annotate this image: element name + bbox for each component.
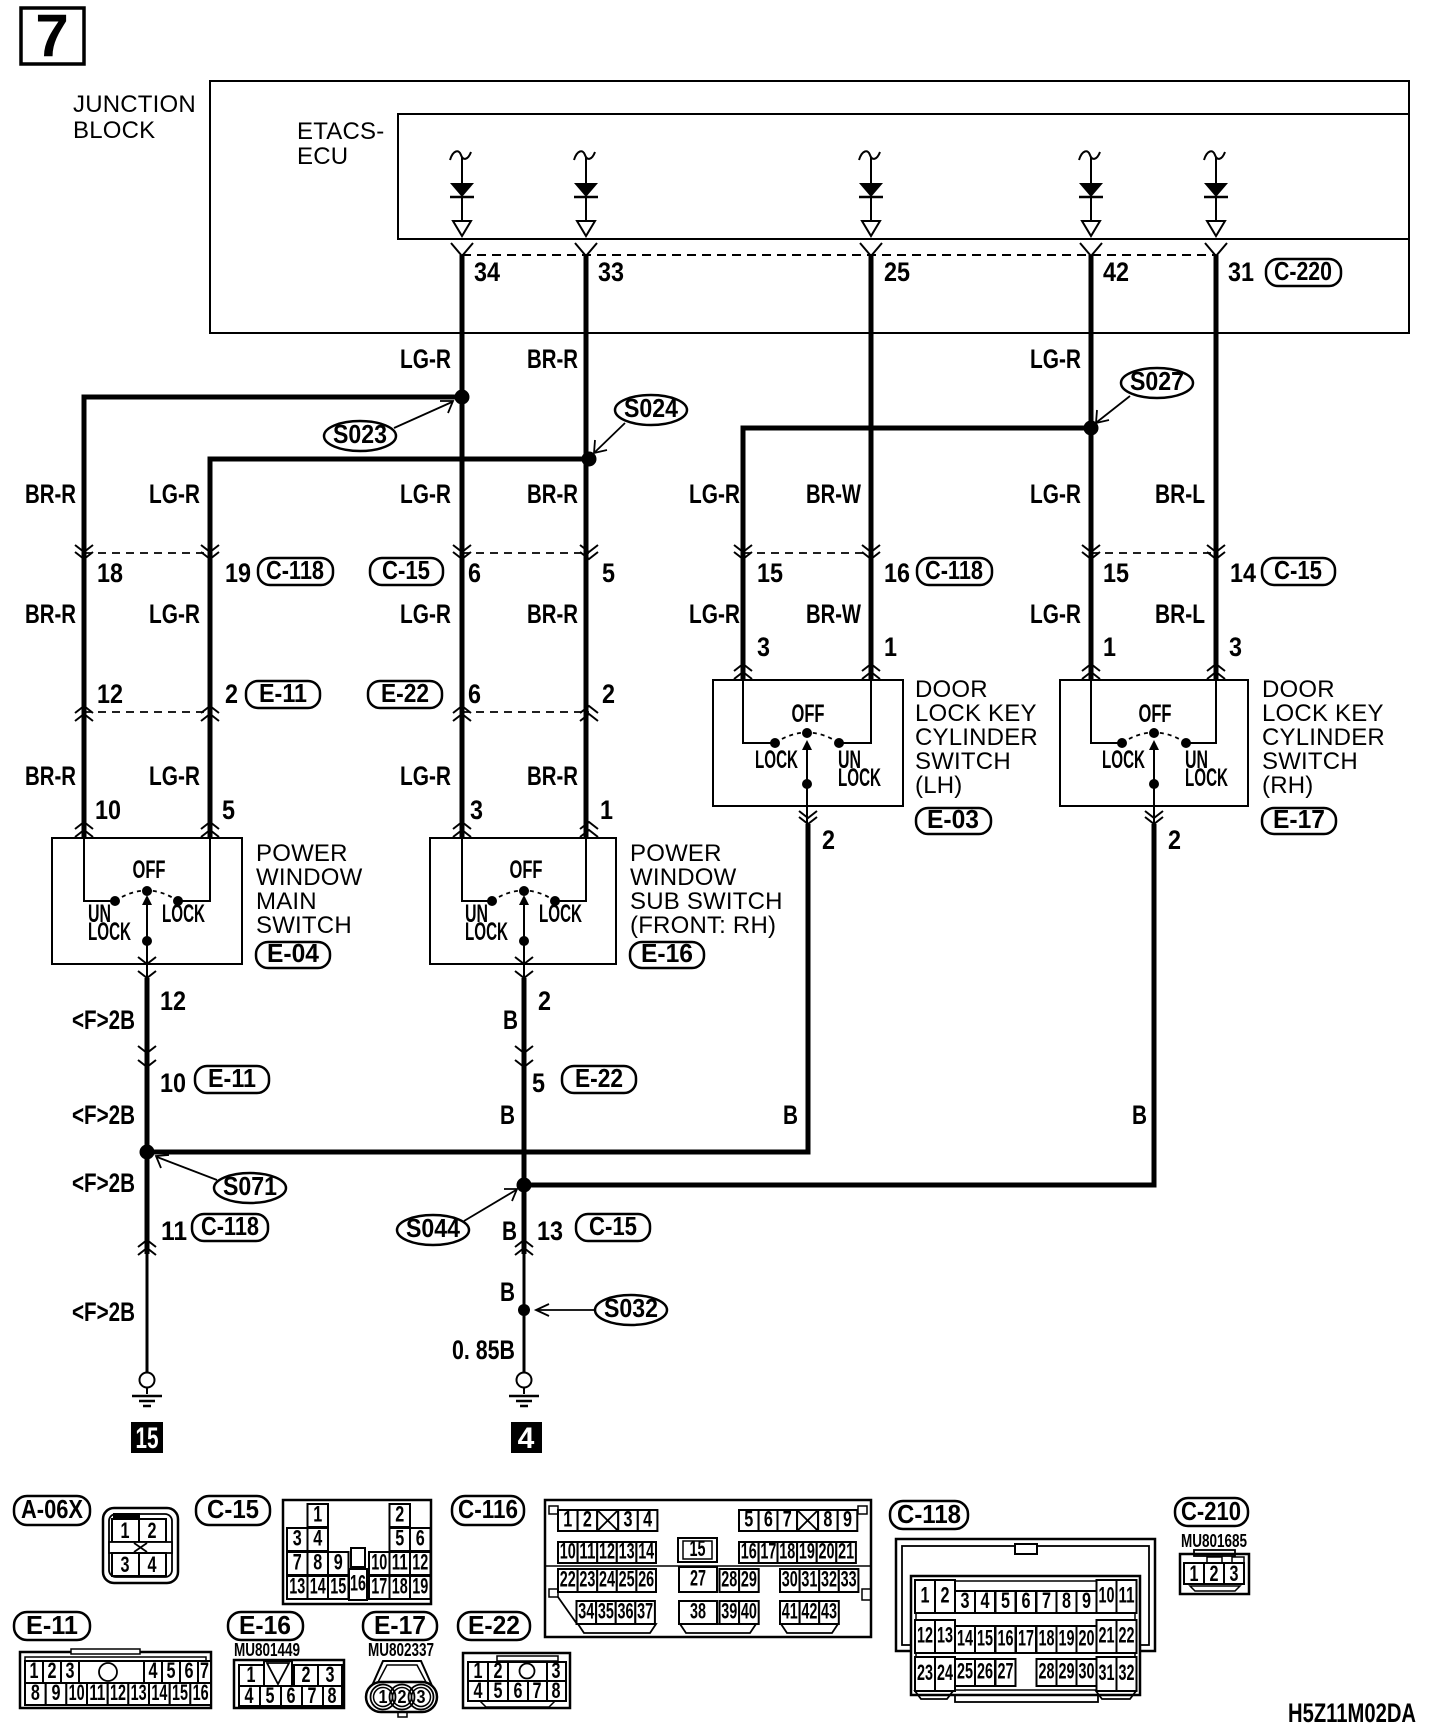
- svg-text:BR-L: BR-L: [1155, 599, 1205, 629]
- svg-text:S044: S044: [406, 1213, 460, 1243]
- diode D4 (pin 42): [1079, 151, 1103, 236]
- connector table label E-17: [363, 1610, 437, 1640]
- svg-text:10: 10: [560, 1539, 576, 1564]
- svg-text:3: 3: [757, 632, 770, 662]
- svg-text:4: 4: [148, 1552, 158, 1577]
- svg-text:4: 4: [313, 1526, 323, 1551]
- splice label S044: [397, 1189, 517, 1245]
- svg-text:32: 32: [821, 1567, 837, 1592]
- svg-text:20: 20: [1079, 1626, 1095, 1651]
- wire pin31 vertical: [1214, 255, 1219, 680]
- svg-text:16: 16: [741, 1539, 757, 1564]
- svg-text:C-15: C-15: [1274, 555, 1322, 585]
- svg-text:27: 27: [998, 1659, 1014, 1684]
- svg-text:40: 40: [741, 1599, 757, 1624]
- diode D3 (pin 25): [859, 151, 883, 236]
- svg-text:30: 30: [1079, 1659, 1095, 1684]
- connector label E-11 lower: [195, 1063, 269, 1093]
- svg-text:11: 11: [579, 1539, 595, 1564]
- connector table label A-06X: [14, 1494, 90, 1525]
- svg-text:10: 10: [95, 795, 121, 825]
- svg-text:OFF: OFF: [510, 856, 543, 884]
- svg-text:12: 12: [599, 1539, 615, 1564]
- splice label S023: [324, 401, 453, 451]
- svg-text:3: 3: [121, 1552, 130, 1577]
- wire branch S024 horizontal: [210, 459, 589, 838]
- svg-text:16: 16: [193, 1680, 209, 1705]
- connector label C-118 (row A right): [917, 555, 992, 585]
- svg-text:S071: S071: [223, 1171, 277, 1201]
- connector table label C-210: [1175, 1496, 1248, 1526]
- ground symbol left: [132, 1373, 162, 1407]
- svg-text:OFF: OFF: [792, 700, 825, 728]
- connector label E-22 lower: [562, 1063, 636, 1093]
- svg-text:6: 6: [468, 558, 481, 588]
- svg-text:LOCK: LOCK: [465, 918, 508, 946]
- svg-text:C-116: C-116: [458, 1494, 518, 1524]
- svg-text:28: 28: [721, 1567, 737, 1592]
- sub switch internals: [462, 838, 586, 978]
- wire door lock LH pin2 down to S071 run: [147, 824, 808, 1152]
- diode D2 (pin 33): [574, 151, 598, 236]
- wire thin to ground mid: [523, 1254, 526, 1372]
- svg-text:13: 13: [937, 1623, 953, 1648]
- wire branch S023 horizontal: [84, 397, 462, 838]
- svg-text:LG-R: LG-R: [400, 599, 451, 629]
- svg-text:14: 14: [957, 1626, 973, 1651]
- svg-text:11: 11: [89, 1680, 105, 1705]
- svg-text:MU801449: MU801449: [234, 1640, 300, 1660]
- svg-text:7: 7: [293, 1550, 302, 1575]
- svg-text:23: 23: [917, 1660, 933, 1685]
- svg-text:ETACS-: ETACS-: [297, 118, 384, 145]
- svg-text:13: 13: [131, 1680, 147, 1705]
- door lock RH internals: [1091, 680, 1228, 824]
- svg-text:SWITCH: SWITCH: [915, 748, 1011, 775]
- svg-text:16: 16: [998, 1626, 1014, 1651]
- svg-text:20: 20: [819, 1539, 835, 1564]
- svg-text:CYLINDER: CYLINDER: [1262, 724, 1385, 751]
- svg-text:BR-R: BR-R: [527, 344, 578, 374]
- connector drawing C-15: [283, 1500, 431, 1604]
- door lock key cylinder switch LH name: [915, 676, 1038, 799]
- power window main switch name: [256, 840, 363, 939]
- svg-text:2: 2: [538, 986, 551, 1016]
- wire door lock RH pin2 down to S044 run: [524, 824, 1154, 1185]
- svg-text:15: 15: [136, 1422, 159, 1455]
- svg-text:19: 19: [799, 1539, 815, 1564]
- svg-text:BR-R: BR-R: [527, 599, 578, 629]
- svg-text:34: 34: [474, 257, 500, 287]
- connector label C-118 lower: [192, 1211, 268, 1241]
- svg-text:26: 26: [977, 1659, 993, 1684]
- main switch internals: [84, 838, 210, 978]
- svg-text:LOCK: LOCK: [1102, 746, 1145, 774]
- connector table label C-118: [890, 1499, 968, 1529]
- svg-text:25: 25: [619, 1567, 635, 1592]
- svg-text:11: 11: [1119, 1583, 1135, 1608]
- splice label S032: [536, 1293, 667, 1325]
- connector half-arrows at C-220: [451, 243, 1227, 256]
- svg-text:21: 21: [838, 1539, 854, 1564]
- svg-text:14: 14: [151, 1680, 167, 1705]
- sheet number 7 box: [21, 2, 84, 69]
- svg-text:LG-R: LG-R: [149, 761, 200, 791]
- wire LG-R pin42 vertical: [1089, 255, 1094, 680]
- svg-text:E-04: E-04: [267, 938, 320, 968]
- svg-text:E-11: E-11: [26, 1610, 78, 1640]
- svg-text:10: 10: [69, 1680, 85, 1705]
- svg-text:B: B: [503, 1005, 518, 1035]
- svg-text:2: 2: [148, 1518, 157, 1543]
- svg-text:6: 6: [416, 1526, 425, 1551]
- svg-text:11: 11: [392, 1550, 408, 1575]
- svg-text:LG-R: LG-R: [1030, 599, 1081, 629]
- svg-text:3: 3: [293, 1526, 302, 1551]
- svg-text:LG-R: LG-R: [400, 344, 451, 374]
- splice S027 dot: [1084, 421, 1099, 436]
- svg-text:WINDOW: WINDOW: [630, 864, 737, 891]
- svg-text:SWITCH: SWITCH: [256, 912, 352, 939]
- svg-text:2: 2: [583, 1507, 592, 1532]
- wire main switch pin12 down: [145, 978, 150, 1254]
- svg-text:1: 1: [600, 795, 613, 825]
- svg-text:1: 1: [563, 1507, 572, 1532]
- connector crossing row A dashed lines: [84, 552, 1216, 554]
- svg-text:2: 2: [822, 825, 835, 855]
- svg-text:2: 2: [941, 1583, 950, 1608]
- connector label E-03: [916, 804, 991, 834]
- connector label C-15 lower: [576, 1211, 650, 1241]
- svg-text:2: 2: [1210, 1561, 1219, 1586]
- svg-text:17: 17: [371, 1574, 387, 1599]
- svg-text:C-15: C-15: [382, 555, 430, 585]
- svg-text:8: 8: [552, 1678, 561, 1703]
- connector drawing E-11: [20, 1649, 211, 1708]
- svg-text:BR-L: BR-L: [1155, 479, 1205, 509]
- svg-text:9: 9: [334, 1550, 343, 1575]
- svg-text:17: 17: [760, 1539, 776, 1564]
- svg-text:12: 12: [160, 986, 186, 1016]
- svg-text:LG-R: LG-R: [149, 599, 200, 629]
- svg-text:2: 2: [398, 1687, 407, 1707]
- svg-text:6: 6: [764, 1507, 773, 1532]
- svg-text:2: 2: [395, 1502, 404, 1527]
- svg-text:E-11: E-11: [208, 1063, 256, 1093]
- svg-text:7: 7: [35, 2, 68, 69]
- connector drawing E-22: [463, 1653, 570, 1708]
- connector label C-118 (row A left): [258, 555, 333, 585]
- svg-text:11: 11: [161, 1216, 187, 1246]
- svg-text:8: 8: [823, 1507, 832, 1532]
- svg-text:19: 19: [1059, 1626, 1075, 1651]
- svg-text:LG-R: LG-R: [1030, 479, 1081, 509]
- svg-text:29: 29: [1059, 1659, 1075, 1684]
- svg-text:15: 15: [1103, 558, 1129, 588]
- svg-text:36: 36: [618, 1599, 634, 1624]
- svg-text:JUNCTION: JUNCTION: [73, 91, 196, 118]
- connector label E-04: [256, 938, 330, 968]
- svg-text:14: 14: [310, 1574, 326, 1599]
- svg-text:33: 33: [598, 257, 624, 287]
- svg-text:15: 15: [977, 1626, 993, 1651]
- svg-text:LOCK: LOCK: [539, 900, 582, 928]
- svg-text:1: 1: [1190, 1561, 1199, 1586]
- svg-text:BR-R: BR-R: [527, 479, 578, 509]
- half-arrows above switch boxes: [75, 664, 1225, 837]
- svg-text:LG-R: LG-R: [149, 479, 200, 509]
- svg-text:BR-W: BR-W: [806, 599, 861, 629]
- wire sub switch pin2 down: [522, 978, 527, 1254]
- connector table label E-11: [14, 1610, 90, 1640]
- svg-text:3: 3: [624, 1507, 633, 1532]
- svg-text:15: 15: [690, 1536, 706, 1561]
- svg-text:5: 5: [395, 1526, 404, 1551]
- svg-text:E-17: E-17: [374, 1610, 426, 1640]
- svg-text:DOOR: DOOR: [915, 676, 988, 703]
- door lock key cylinder switch LH box: [713, 680, 903, 806]
- svg-text:12: 12: [97, 679, 123, 709]
- power window main switch U1 box: [52, 838, 242, 964]
- svg-text:22: 22: [1119, 1623, 1135, 1648]
- svg-text:E-16: E-16: [239, 1610, 291, 1640]
- svg-text:18: 18: [392, 1574, 408, 1599]
- power window sub switch U2 box: [430, 838, 616, 964]
- door lock key cylinder switch RH box: [1060, 680, 1248, 806]
- splice S071 dot: [140, 1145, 155, 1160]
- half-arrow at C-15 lower: [515, 1240, 533, 1255]
- svg-text:31: 31: [801, 1567, 817, 1592]
- svg-text:18: 18: [1039, 1626, 1055, 1651]
- svg-text:1: 1: [1103, 632, 1116, 662]
- svg-text:BR-R: BR-R: [25, 479, 76, 509]
- svg-text:ECU: ECU: [297, 143, 348, 170]
- svg-text:29: 29: [741, 1567, 757, 1592]
- svg-text:<F>2B: <F>2B: [72, 1005, 135, 1035]
- svg-text:8: 8: [1062, 1588, 1071, 1613]
- ground ref 15 box: [131, 1422, 163, 1455]
- svg-text:POWER: POWER: [630, 840, 722, 867]
- svg-text:10: 10: [371, 1550, 387, 1575]
- svg-text:3: 3: [1230, 1561, 1239, 1586]
- connector label E-22 (row B): [368, 678, 442, 708]
- svg-text:9: 9: [1082, 1588, 1091, 1613]
- svg-text:19: 19: [225, 558, 251, 588]
- svg-text:1: 1: [884, 632, 897, 662]
- svg-text:E-16: E-16: [641, 938, 693, 968]
- svg-text:2: 2: [1168, 825, 1181, 855]
- svg-text:CYLINDER: CYLINDER: [915, 724, 1038, 751]
- svg-text:4: 4: [474, 1678, 484, 1703]
- svg-text:31: 31: [1228, 257, 1254, 287]
- connector label E-17: [1262, 804, 1336, 834]
- svg-text:16: 16: [884, 558, 910, 588]
- door lock LH internals: [743, 680, 881, 824]
- junction block label: [73, 91, 196, 144]
- svg-text:7: 7: [1042, 1588, 1051, 1613]
- svg-text:(RH): (RH): [1262, 772, 1313, 799]
- svg-text:12: 12: [917, 1623, 933, 1648]
- diode D1 (pin 34): [450, 151, 474, 236]
- svg-text:C-118: C-118: [925, 555, 983, 585]
- svg-text:30: 30: [782, 1567, 798, 1592]
- svg-text:S024: S024: [624, 393, 678, 423]
- ground ref 4 box: [511, 1422, 542, 1455]
- svg-text:5: 5: [266, 1683, 275, 1708]
- svg-text:E-22: E-22: [575, 1063, 623, 1093]
- svg-text:E-11: E-11: [259, 678, 307, 708]
- splice S023 dot: [455, 390, 470, 405]
- svg-text:37: 37: [637, 1599, 653, 1624]
- svg-text:5: 5: [1001, 1588, 1010, 1613]
- svg-text:6: 6: [287, 1683, 296, 1708]
- svg-text:H5Z11M02DA: H5Z11M02DA: [1288, 1698, 1416, 1728]
- svg-text:C-220: C-220: [1274, 256, 1332, 286]
- svg-text:6: 6: [468, 679, 481, 709]
- connector drawing C-118: [896, 1539, 1155, 1702]
- svg-text:32: 32: [1119, 1660, 1135, 1685]
- svg-text:<F>2B: <F>2B: [72, 1168, 135, 1198]
- splice label S024: [594, 393, 687, 453]
- svg-text:MU802337: MU802337: [368, 1640, 434, 1660]
- svg-text:C-15: C-15: [207, 1494, 259, 1524]
- half-arrows below main switch: [138, 811, 1163, 978]
- svg-text:6: 6: [1022, 1588, 1031, 1613]
- svg-text:LG-R: LG-R: [1030, 344, 1081, 374]
- svg-text:<F>2B: <F>2B: [72, 1100, 135, 1130]
- svg-text:BLOCK: BLOCK: [73, 117, 155, 144]
- svg-text:42: 42: [1103, 257, 1129, 287]
- svg-text:SUB SWITCH: SUB SWITCH: [630, 888, 783, 915]
- svg-text:5: 5: [602, 558, 615, 588]
- svg-text:LOCK KEY: LOCK KEY: [1262, 700, 1384, 727]
- svg-text:BR-R: BR-R: [25, 599, 76, 629]
- svg-text:21: 21: [1099, 1623, 1115, 1648]
- svg-text:13: 13: [289, 1574, 305, 1599]
- svg-text:25: 25: [884, 257, 910, 287]
- svg-text:13: 13: [537, 1216, 563, 1246]
- svg-text:C-118: C-118: [897, 1499, 961, 1529]
- connector label E-11 (row B): [246, 678, 320, 708]
- svg-text:LG-R: LG-R: [689, 479, 740, 509]
- ETACS-ECU label: [297, 118, 384, 170]
- svg-text:10: 10: [1099, 1583, 1115, 1608]
- svg-text:LG-R: LG-R: [689, 599, 740, 629]
- svg-text:15: 15: [330, 1574, 346, 1599]
- svg-text:LOCK: LOCK: [838, 764, 881, 792]
- svg-text:2: 2: [225, 679, 238, 709]
- svg-text:8: 8: [31, 1680, 40, 1705]
- svg-text:7: 7: [308, 1683, 317, 1708]
- svg-text:POWER: POWER: [256, 840, 348, 867]
- connector drawing A-06X: [103, 1508, 178, 1583]
- svg-text:42: 42: [801, 1599, 817, 1624]
- svg-text:E-22: E-22: [381, 678, 429, 708]
- svg-text:3: 3: [470, 795, 483, 825]
- svg-text:1: 1: [313, 1502, 322, 1527]
- wire BR-R pin33 vertical: [584, 255, 589, 838]
- connector drawing E-17: [366, 1661, 437, 1717]
- svg-text:24: 24: [599, 1567, 615, 1592]
- svg-text:14: 14: [638, 1539, 654, 1564]
- svg-text:3: 3: [961, 1588, 970, 1613]
- door lock key cylinder switch RH name: [1262, 676, 1385, 799]
- svg-text:5: 5: [222, 795, 235, 825]
- svg-text:C-15: C-15: [589, 1211, 637, 1241]
- svg-text:15: 15: [172, 1680, 188, 1705]
- svg-text:(FRONT: RH): (FRONT: RH): [630, 912, 776, 939]
- svg-text:8: 8: [328, 1683, 337, 1708]
- svg-text:15: 15: [757, 558, 783, 588]
- power window sub switch name: [630, 840, 783, 939]
- svg-text:3: 3: [1229, 632, 1242, 662]
- svg-text:43: 43: [821, 1599, 837, 1624]
- svg-text:OFF: OFF: [133, 856, 166, 884]
- svg-text:4: 4: [245, 1683, 255, 1708]
- half-arrows at E-11/E-22 row 2: [138, 1046, 533, 1067]
- splice label S071: [156, 1155, 286, 1203]
- svg-text:1: 1: [121, 1518, 130, 1543]
- svg-text:S027: S027: [1130, 366, 1184, 396]
- svg-text:9: 9: [843, 1507, 852, 1532]
- svg-text:E-03: E-03: [927, 804, 979, 834]
- splice label S027: [1096, 366, 1193, 423]
- svg-text:34: 34: [578, 1599, 594, 1624]
- svg-text:6: 6: [514, 1678, 523, 1703]
- svg-text:LOCK KEY: LOCK KEY: [915, 700, 1037, 727]
- connector table label C-15: [196, 1494, 270, 1525]
- svg-text:BR-W: BR-W: [806, 479, 861, 509]
- svg-text:S032: S032: [604, 1293, 658, 1323]
- svg-text:4: 4: [518, 1422, 535, 1455]
- svg-text:(LH): (LH): [915, 772, 962, 799]
- junction block box: [210, 81, 1409, 333]
- svg-text:S023: S023: [333, 419, 387, 449]
- svg-text:LOCK: LOCK: [755, 746, 798, 774]
- half-arrow at C-118 lower: [138, 1240, 156, 1255]
- svg-text:SWITCH: SWITCH: [1262, 748, 1358, 775]
- svg-text:18: 18: [97, 558, 123, 588]
- svg-text:31: 31: [1099, 1660, 1115, 1685]
- svg-text:LOCK: LOCK: [88, 918, 131, 946]
- svg-text:LG-R: LG-R: [400, 761, 451, 791]
- svg-text:5: 5: [744, 1507, 753, 1532]
- svg-text:A-06X: A-06X: [21, 1494, 84, 1524]
- wire LG-R pin34 vertical: [460, 255, 465, 838]
- wire branch S027 horizontal: [743, 428, 1091, 680]
- svg-text:9: 9: [52, 1680, 61, 1705]
- svg-text:41: 41: [782, 1599, 798, 1624]
- svg-text:23: 23: [579, 1567, 595, 1592]
- connector table label E-22: [458, 1610, 530, 1640]
- connector C-220 dashed line: [462, 254, 1216, 256]
- svg-text:26: 26: [638, 1567, 654, 1592]
- ETACS-ECU box: [398, 114, 1409, 239]
- connector label C-15 (row A left): [370, 555, 443, 585]
- ground symbol mid: [509, 1373, 539, 1407]
- svg-text:5: 5: [494, 1678, 503, 1703]
- svg-text:4: 4: [981, 1588, 991, 1613]
- svg-text:2: 2: [602, 679, 615, 709]
- svg-text:DOOR: DOOR: [1262, 676, 1335, 703]
- svg-text:7: 7: [783, 1507, 792, 1532]
- svg-text:C-210: C-210: [1181, 1496, 1241, 1526]
- splice S044 dot: [517, 1178, 532, 1193]
- wire pin25 vertical: [869, 255, 874, 680]
- svg-text:10: 10: [160, 1068, 186, 1098]
- svg-text:WINDOW: WINDOW: [256, 864, 363, 891]
- connector table label E-16: [228, 1610, 303, 1640]
